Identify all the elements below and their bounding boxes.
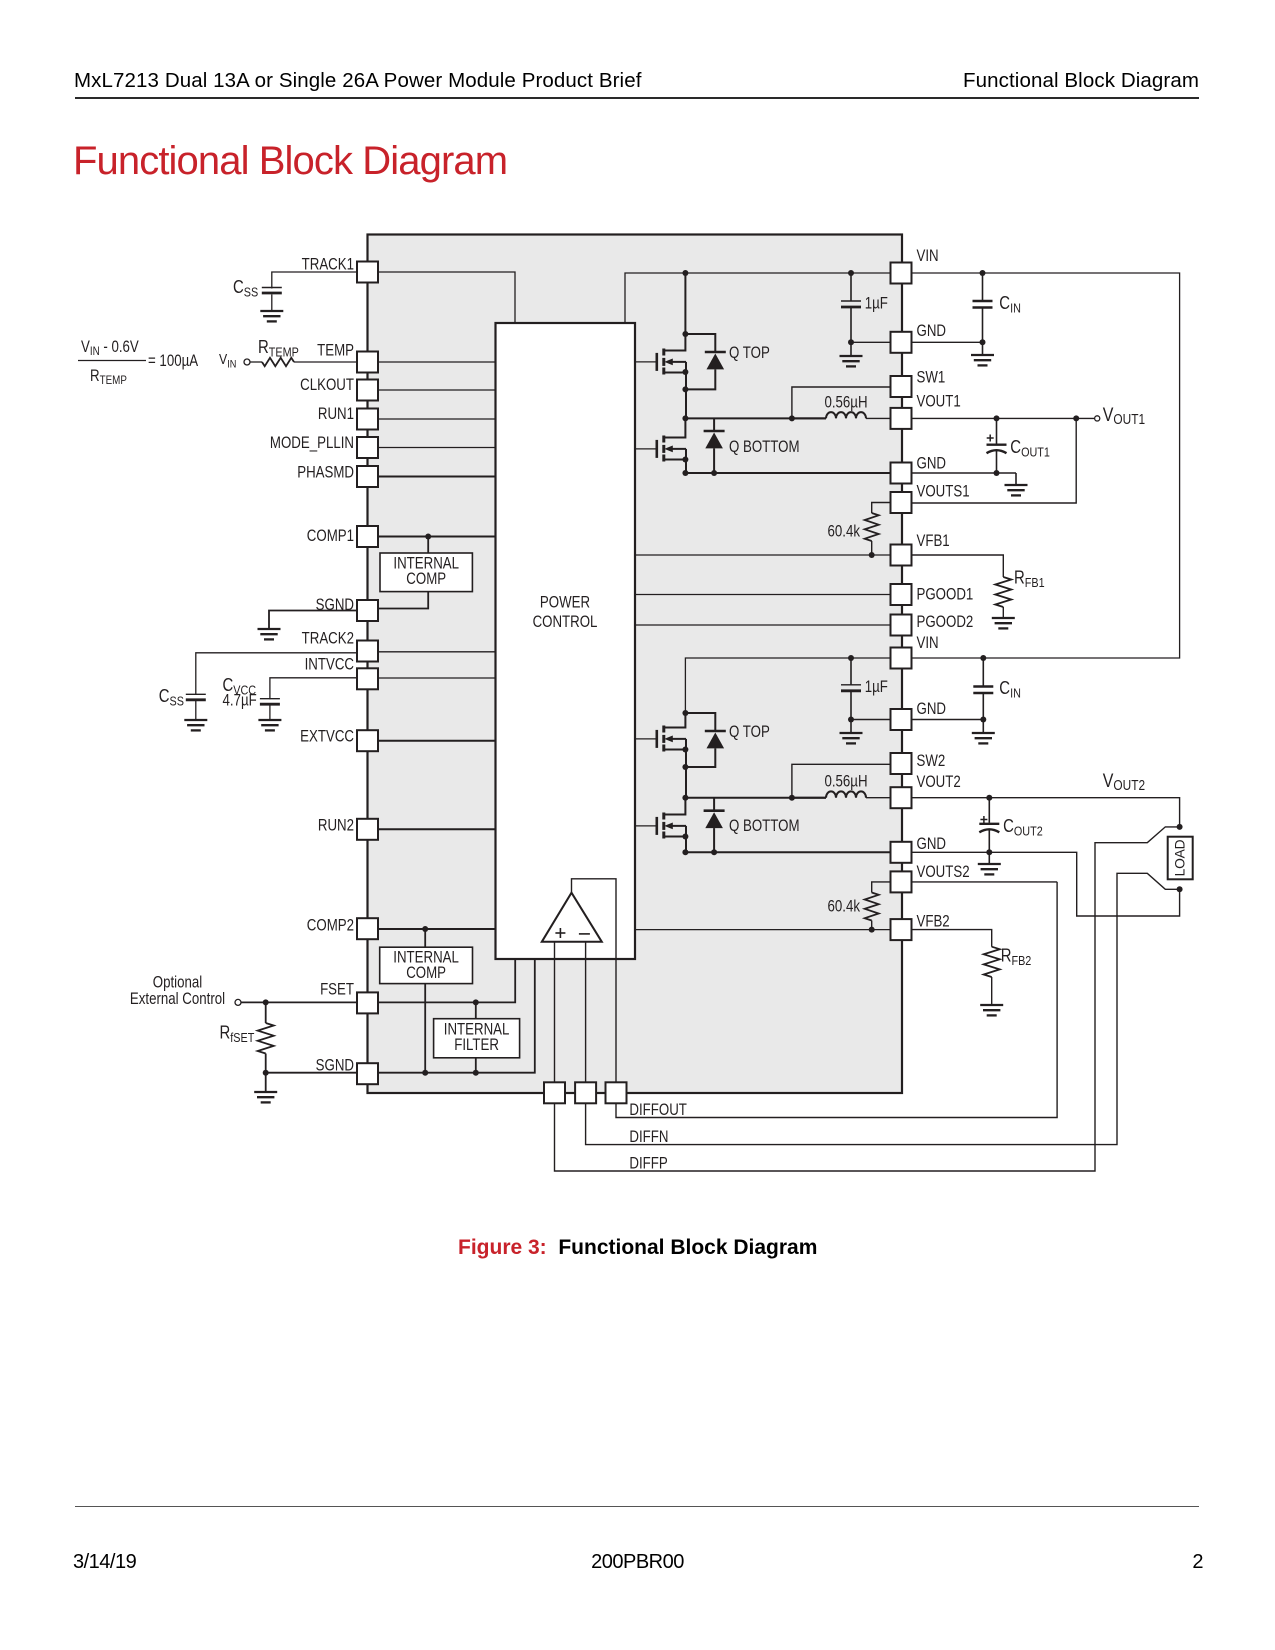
node RfSET bottom on SGND wire (263, 1070, 269, 1076)
wire Q bottom 1 source to GND (685, 449, 687, 473)
wire INTVCC to power control (378, 677, 496, 679)
ground CSS (bottom) (184, 720, 207, 730)
svg-text:GND: GND (917, 323, 946, 340)
svg-text:PHASMD: PHASMD (297, 464, 354, 481)
ground 1uF channel 2 (840, 733, 863, 743)
wire GND1 external (912, 341, 983, 343)
wire Q top 1 drain (684, 273, 686, 334)
svg-text:MODE_PLLIN: MODE_PLLIN (270, 435, 354, 452)
wire COMP2 to internal comp 2 (424, 929, 426, 947)
node SW2 branch (789, 795, 795, 801)
wire TEMP to power control (378, 361, 496, 363)
node SW1 branch (789, 415, 795, 421)
node LOAD top terminal (1177, 824, 1183, 830)
wire COMP1 to power control (378, 536, 496, 538)
block INTERNAL COMP 2 (380, 947, 473, 983)
pin GND (right) (891, 842, 912, 863)
capacitor 1uF channel 2 (850, 658, 852, 685)
pin DIFFOUT (bottom) (606, 1082, 627, 1103)
inductor 0.56uH channel 2 (792, 797, 826, 799)
svg-text:VOUT2: VOUT2 (1103, 770, 1145, 794)
svg-text:VOUT2: VOUT2 (917, 774, 961, 791)
wire MODE_PLLIN to power control (378, 447, 496, 449)
wire PGOOD1 from power control (635, 594, 891, 596)
svg-text:PGOOD1: PGOOD1 (917, 586, 974, 603)
wire GND power channel 1 (685, 472, 890, 474)
node 60.4k / VFB2 (869, 927, 875, 933)
svg-text:COMP1: COMP1 (307, 528, 354, 545)
pin PGOOD2 (right) (891, 615, 912, 636)
svg-text:RfSET: RfSET (220, 1022, 255, 1045)
diode body Q top 1 (685, 334, 715, 352)
wire VOUTS2 sense (912, 881, 1058, 883)
ground RfSET (254, 1092, 277, 1102)
svg-text:VOUT1: VOUT1 (1103, 404, 1145, 428)
pin VOUTS2 (right) (891, 871, 912, 892)
capacitor CSS (top) (262, 288, 282, 294)
wire internal comp 2 to SGND (424, 984, 426, 1073)
wire SW node channel 2 (685, 797, 826, 799)
pin FSET (left) (357, 992, 378, 1013)
transistor Q TOP (channel 2) (657, 726, 686, 752)
ground COUT1 (1015, 473, 1017, 485)
svg-text:CSS: CSS (159, 686, 184, 709)
pin COMP1 (left) (357, 526, 378, 547)
wire SGND2 to power control (378, 959, 535, 1073)
wire CSS to ground (271, 295, 273, 312)
svg-text:CONTROL: CONTROL (533, 614, 598, 631)
pin COMP2 (left) (357, 918, 378, 939)
wire VFB1 from power control (635, 554, 891, 556)
svg-text:VIN - 0.6V: VIN - 0.6V (81, 339, 139, 358)
svg-text:SW1: SW1 (917, 369, 946, 386)
wire op-amp - input to DIFFN (586, 873, 1180, 1144)
wire Q bottom 1 gate (635, 448, 657, 450)
node LOAD bottom terminal (1177, 886, 1183, 892)
pin VIN (right) (891, 263, 912, 284)
pin RUN2 (left) (357, 819, 378, 840)
pin VOUT2 (right) (891, 787, 912, 808)
transistor Q TOP (channel 1) (657, 349, 686, 375)
svg-text:COMP2: COMP2 (307, 917, 354, 934)
capacitor 1uF channel 1 (850, 273, 852, 301)
node COMP2 junction (422, 926, 428, 932)
resistor RTEMP (250, 361, 262, 363)
ground RFB1 (992, 618, 1015, 628)
svg-text:1µF: 1µF (865, 295, 888, 312)
svg-text:COMP: COMP (406, 965, 446, 982)
svg-text:CIN: CIN (999, 678, 1021, 701)
pin SW2 (right) (891, 753, 912, 774)
svg-text:PGOOD2: PGOOD2 (917, 614, 974, 631)
wire GND2b external to LOAD return (912, 852, 1180, 916)
pin VOUT1 (right) (891, 408, 912, 429)
svg-text:CLKOUT: CLKOUT (300, 377, 354, 394)
node 1uF bottom ch1 (848, 339, 854, 345)
wire VOUT1 external (891, 417, 1095, 419)
svg-text:COUT2: COUT2 (1003, 815, 1043, 838)
pin GND (right) (891, 463, 912, 484)
svg-text:RTEMP: RTEMP (258, 337, 299, 360)
wire RUN1 to power control (378, 418, 496, 420)
svg-text:POWER: POWER (540, 594, 590, 611)
wire FSET external to pin (241, 1001, 378, 1003)
svg-text:TRACK2: TRACK2 (302, 630, 354, 647)
wire TRACK1 to CSS (272, 272, 357, 289)
node COMP1 junction (425, 534, 431, 540)
svg-text:VIN: VIN (917, 248, 939, 265)
svg-text:Q BOTTOM: Q BOTTOM (729, 439, 800, 456)
ground RFB2 (980, 1005, 1003, 1015)
node 1uF bottom ch2 (848, 717, 854, 723)
capacitor CIN channel 2 (982, 658, 984, 687)
pin TRACK1 (left) (357, 262, 378, 283)
pin GND (right) (891, 709, 912, 730)
wire GND2 external (912, 719, 984, 721)
svg-text:DIFFN: DIFFN (629, 1129, 668, 1146)
svg-text:GND: GND (917, 701, 946, 718)
pin DIFFP (bottom) (544, 1082, 565, 1103)
ground CIN channel 2 (982, 720, 984, 734)
node VIN / Q-top-2 drain branch (682, 710, 688, 716)
pin EXTVCC (left) (357, 730, 378, 751)
diode body Q top 2 (685, 713, 715, 731)
wire FSET to internal filter (475, 1002, 477, 1018)
svg-text:RFB1: RFB1 (1014, 567, 1045, 590)
pin PHASMD (left) (357, 466, 378, 487)
svg-text:VFB2: VFB2 (917, 914, 950, 931)
pin INTVCC (left) (357, 668, 378, 689)
wire RUN2 to power control (378, 828, 496, 830)
diode body Q bottom 1 (713, 418, 715, 431)
svg-text:VIN: VIN (917, 635, 939, 652)
resistor RFB1 (912, 555, 1004, 577)
svg-text:Q TOP: Q TOP (729, 345, 770, 362)
ground 1uF channel 1 (840, 356, 863, 366)
capacitor CSS (bottom) (186, 694, 206, 700)
wire COMP2 to power control (378, 928, 496, 930)
ground CIN channel 1 (982, 342, 984, 355)
pin RUN1 (left) (357, 409, 378, 430)
svg-text:EXTVCC: EXTVCC (300, 728, 354, 745)
wire Q top 2 gate (635, 738, 657, 740)
wire CVCC to ground (269, 705, 271, 720)
wire SW2 pin branch (792, 764, 891, 797)
label + COUT1 (987, 435, 994, 442)
wire TRACK2 to CSS (bottom) (196, 653, 357, 695)
svg-text:RFB2: RFB2 (1001, 945, 1032, 968)
ground CVCC (258, 720, 281, 730)
inductor 0.56uH channel 1 (792, 417, 826, 419)
wire VFB2 from power control (635, 929, 891, 931)
capacitor COUT1 (996, 418, 998, 443)
node 1uF top ch2 (848, 655, 854, 661)
svg-text:60.4k: 60.4k (828, 898, 861, 915)
wire Q top 2 source to SW node (685, 739, 687, 798)
wire CLKOUT to power control (378, 389, 496, 391)
ground COUT2 (988, 852, 990, 864)
op-amp U2 (remote sense diff amp) (542, 893, 602, 942)
pin DIFFN (bottom) (575, 1082, 596, 1103)
terminal VIN (open circle) (244, 359, 250, 365)
pin SGND (left) (357, 1063, 378, 1084)
wire Q bottom 2 source to GND (685, 826, 687, 852)
wire SW node channel 1 (685, 417, 826, 419)
capacitor COUT2 (988, 798, 990, 823)
wire CSS bottom to ground (195, 701, 197, 720)
terminal FSET external (open circle) (235, 999, 241, 1005)
block INTERNAL FILTER (434, 1019, 520, 1058)
svg-text:RUN1: RUN1 (318, 406, 354, 423)
capacitor CVCC 4.7uF (260, 699, 280, 705)
svg-text:Q BOTTOM: Q BOTTOM (729, 818, 800, 835)
svg-text:TEMP: TEMP (317, 342, 354, 359)
wire op-amp + input to DIFFP (555, 827, 1180, 1171)
pin CLKOUT (left) (357, 380, 378, 401)
wire INTVCC to CVCC (270, 678, 357, 699)
svg-text:0.56µH: 0.56µH (824, 773, 867, 790)
wire PGOOD2 from power control (635, 624, 891, 626)
node 60.4k / VFB1 (869, 552, 875, 558)
svg-text:COMP: COMP (406, 571, 446, 588)
svg-text:VOUTS1: VOUTS1 (917, 484, 970, 501)
pin VIN (right) (891, 648, 912, 669)
load block (1168, 837, 1193, 880)
wire internal filter to SGND (475, 1058, 477, 1073)
wire Q bottom 2 gate (635, 825, 657, 827)
capacitor CIN channel 1 (982, 273, 984, 301)
svg-text:RUN2: RUN2 (318, 817, 354, 834)
POWER CONTROL block U1 (496, 323, 636, 959)
svg-text:External Control: External Control (130, 991, 225, 1008)
pin SW1 (right) (891, 376, 912, 397)
wire TRACK2 to power control (378, 651, 496, 653)
node diode 2 anode (682, 764, 688, 770)
svg-text:DIFFP: DIFFP (629, 1155, 667, 1172)
pin TEMP (left) (357, 352, 378, 373)
pin MODE_PLLIN (left) (357, 437, 378, 458)
svg-text:GND: GND (917, 455, 946, 472)
wire VOUT2 external to LOAD (891, 798, 1180, 827)
module body (power module outline) (368, 235, 903, 1094)
svg-text:TRACK1: TRACK1 (302, 256, 354, 273)
wire internal comp 1 to SGND (378, 592, 428, 609)
node RfSET top (263, 999, 269, 1005)
svg-text:SGND: SGND (316, 1057, 354, 1074)
wire Q top 1 source to SW node (685, 362, 687, 419)
wire VOUTS1 sense (912, 418, 1077, 503)
resistor RfSET (258, 1023, 274, 1054)
node 1uF top ch1 (848, 270, 854, 276)
wire Q top 2 drain (664, 713, 686, 728)
svg-text:SW2: SW2 (917, 753, 946, 770)
svg-text:VOUTS2: VOUTS2 (917, 864, 970, 881)
pin SGND (left) (357, 600, 378, 621)
node SGND2 / internal filter (473, 1070, 479, 1076)
wire Q top 1 gate (635, 361, 657, 363)
svg-text:VOUT1: VOUT1 (917, 394, 961, 411)
resistor 60.4k channel 1 (872, 503, 891, 514)
svg-text:= 100µA: = 100µA (148, 353, 198, 370)
transistor Q BOTTOM (channel 2) (664, 798, 686, 815)
svg-text:1µF: 1µF (865, 679, 888, 696)
svg-text:VIN: VIN (219, 351, 236, 371)
svg-text:CSS: CSS (233, 277, 258, 300)
node SGND2 / internal comp 2 (422, 1070, 428, 1076)
pin PGOOD1 (right) (891, 584, 912, 605)
svg-text:FILTER: FILTER (454, 1037, 499, 1054)
wire GND pin 1 internal (851, 341, 891, 343)
svg-text:COUT1: COUT1 (1010, 436, 1050, 459)
wire GND power channel 2 (685, 851, 890, 853)
svg-text:0.56µH: 0.56µH (824, 394, 867, 411)
block INTERNAL COMP 1 (380, 553, 472, 592)
wire SGND2 left (266, 1072, 357, 1074)
label + COUT2 (980, 816, 987, 823)
wire TRACK1 to power control (378, 272, 515, 323)
wire VIN bus channel 1 (625, 273, 1180, 713)
wire op-amp output to DIFFOUT (572, 879, 1058, 1118)
svg-text:CIN: CIN (999, 293, 1021, 316)
pin VOUTS1 (right) (891, 492, 912, 513)
svg-text:FSET: FSET (320, 981, 354, 998)
wire EXTVCC to power control (378, 740, 496, 742)
wire COMP1 to internal comp 1 (427, 537, 429, 554)
resistor RFB2 (912, 930, 992, 947)
node FSET / internal filter junction (473, 999, 479, 1005)
resistor 60.4k channel 2 (872, 882, 891, 893)
wire RfSET to ground (265, 1073, 267, 1092)
svg-text:LOAD: LOAD (1173, 839, 1188, 876)
wire PHASMD to power control (378, 476, 496, 478)
wire SGND to ground (269, 611, 357, 630)
pin GND (right) (891, 332, 912, 353)
svg-text:INTVCC: INTVCC (305, 656, 355, 673)
node diode 1 anode (682, 386, 688, 392)
transistor Q BOTTOM (channel 1) (664, 418, 686, 437)
pin TRACK2 (left) (357, 641, 378, 662)
svg-text:4.7µF: 4.7µF (223, 692, 257, 709)
svg-text:SGND: SGND (316, 597, 354, 614)
wire SW1 pin branch (792, 387, 891, 418)
svg-text:RTEMP: RTEMP (90, 368, 127, 387)
svg-text:GND: GND (917, 836, 946, 853)
ground SGND (top) (258, 629, 281, 639)
wire GND pin 2 internal (851, 719, 891, 721)
wire GND1b external (912, 472, 1017, 474)
terminal VOUT1 (open circle) (1095, 416, 1100, 421)
node Q top 1 source (682, 369, 688, 375)
node VOUTS1 / VOUT1 (1073, 415, 1079, 421)
label equation VIN-0.6V / RTEMP = 100uA (78, 339, 198, 387)
svg-text:Optional: Optional (153, 975, 202, 992)
svg-text:VFB1: VFB1 (917, 533, 950, 550)
pin VFB2 (right) (891, 919, 912, 940)
svg-text:DIFFOUT: DIFFOUT (629, 1102, 686, 1119)
svg-text:60.4k: 60.4k (828, 523, 861, 540)
wire FSET to power control (378, 959, 515, 1002)
svg-text:Q TOP: Q TOP (729, 724, 770, 741)
ground CSS (top) (260, 311, 283, 321)
node VIN / Q-top-1 drain branch (682, 270, 688, 276)
diode body Q bottom 2 (713, 798, 715, 811)
pin VFB1 (right) (891, 545, 912, 566)
